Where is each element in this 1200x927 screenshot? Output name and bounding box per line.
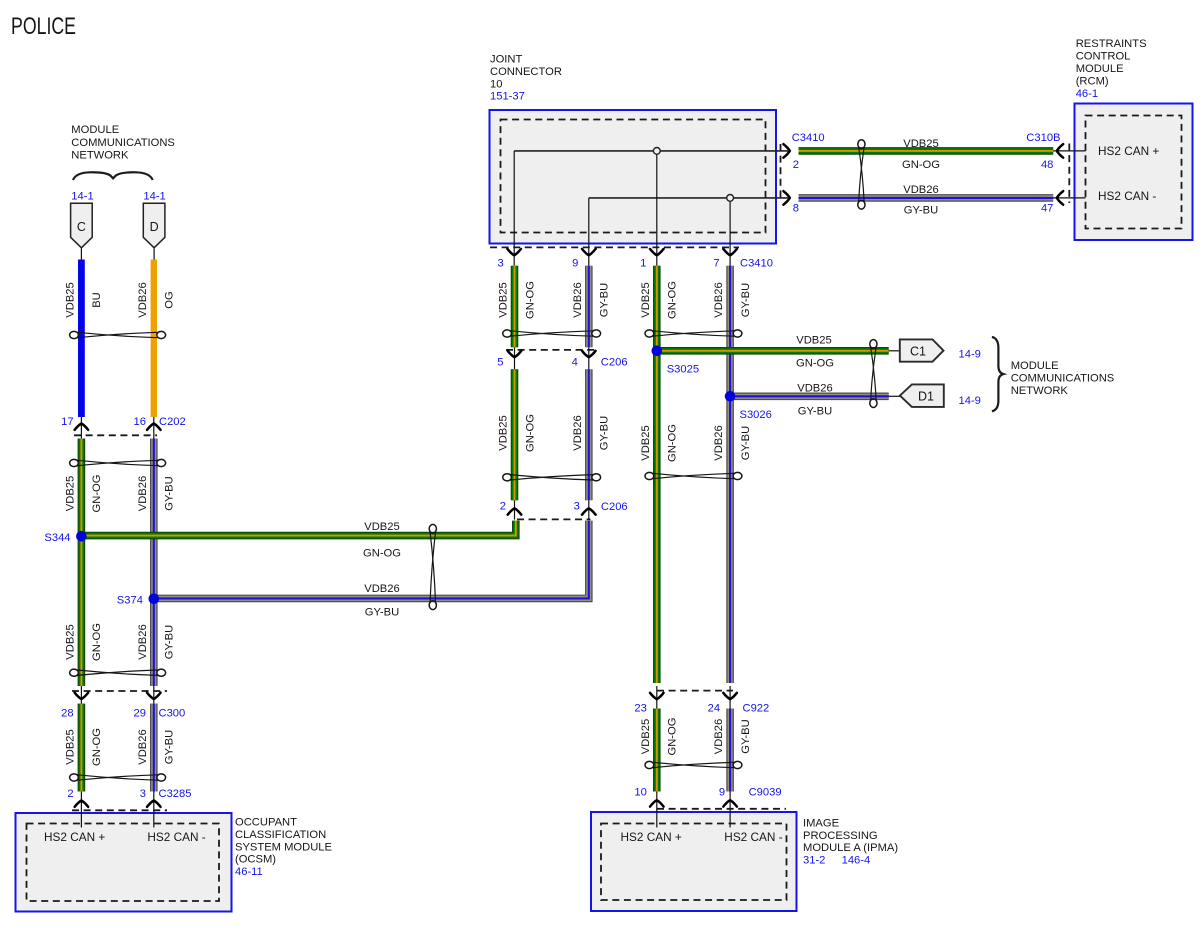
C3410 pin 8 arrow <box>783 191 789 205</box>
svg-text:C206: C206 <box>601 501 628 513</box>
svg-text:D1: D1 <box>918 389 934 403</box>
svg-text:VDB26: VDB26 <box>137 282 149 317</box>
twisted pair symbol on C1/D1 runs <box>870 340 877 408</box>
twisted pair symbol below C202 <box>70 459 166 466</box>
C3285 pin 3 arrow <box>147 801 161 807</box>
svg-text:1: 1 <box>640 258 646 270</box>
twisted pair symbol right pair upper <box>645 330 742 337</box>
svg-text:C3410: C3410 <box>792 132 825 144</box>
IPMA inner dashed box <box>601 824 787 901</box>
svg-text:9: 9 <box>572 258 578 270</box>
svg-text:2: 2 <box>67 788 73 800</box>
svg-text:VDB26: VDB26 <box>903 184 938 196</box>
splice S3026 <box>725 391 736 402</box>
svg-text:POLICE: POLICE <box>11 13 76 40</box>
wire VDB26 GY-BU from C300 pin 29 to C3285 pin 3 <box>150 704 158 792</box>
svg-text:GY-BU: GY-BU <box>599 416 611 450</box>
wire VDB26 GY-BU from C202 pin 16 to C300 pin 29 <box>150 439 158 687</box>
twisted pair symbol above C9039 <box>645 761 742 768</box>
svg-text:C9039: C9039 <box>749 787 782 799</box>
svg-text:VDB26: VDB26 <box>572 415 584 450</box>
svg-text:(OCSM): (OCSM) <box>235 854 276 866</box>
C206 pin 2 line <box>514 500 516 519</box>
brace right of C1 D1 <box>992 337 1003 411</box>
svg-text:HS2 CAN -: HS2 CAN - <box>1098 189 1156 203</box>
svg-text:GN-OG: GN-OG <box>363 547 401 559</box>
C9039 pin 10 arrow <box>650 800 664 806</box>
svg-text:5: 5 <box>497 357 503 369</box>
twisted pair symbol on S344/S374 runs <box>429 524 436 609</box>
svg-text:VDB25: VDB25 <box>640 425 652 460</box>
svg-text:VDB26: VDB26 <box>137 476 149 511</box>
svg-text:C3410: C3410 <box>740 258 773 270</box>
svg-text:GN-OG: GN-OG <box>667 424 679 462</box>
connector D pigtail line <box>153 248 155 260</box>
joint connector pin 3 drop line <box>513 151 515 266</box>
joint connector pin 7 drop line <box>729 201 731 266</box>
connector C206 lower dashed boundary <box>517 518 591 520</box>
svg-text:C3285: C3285 <box>159 788 192 800</box>
svg-text:NETWORK: NETWORK <box>1011 385 1069 397</box>
C206 pin 2 arrow <box>508 508 522 514</box>
joint connector pin 1 arrow <box>650 249 664 255</box>
svg-text:3: 3 <box>574 501 580 513</box>
twisted pair symbol above C3285 <box>70 774 166 781</box>
svg-text:GY-BU: GY-BU <box>164 625 176 659</box>
svg-text:14-9: 14-9 <box>959 395 981 407</box>
svg-text:9: 9 <box>719 787 725 799</box>
svg-text:146-4: 146-4 <box>842 855 871 867</box>
svg-text:GY-BU: GY-BU <box>599 283 611 317</box>
RCM inner dashed box <box>1086 116 1182 229</box>
connector C300 dashed boundary <box>72 690 167 692</box>
connector C pentagon <box>71 203 93 248</box>
svg-text:48: 48 <box>1041 159 1053 171</box>
svg-text:VDB25: VDB25 <box>64 282 76 317</box>
connector C3410 dashed boundary right of joint connector <box>780 144 782 198</box>
svg-text:VDB25: VDB25 <box>364 521 399 533</box>
C1 flag lead line <box>889 350 901 352</box>
svg-text:PROCESSING: PROCESSING <box>803 830 878 842</box>
svg-text:GY-BU: GY-BU <box>740 426 752 460</box>
svg-text:47: 47 <box>1041 202 1053 214</box>
connector C3285 dashed boundary <box>72 809 167 811</box>
svg-text:S344: S344 <box>44 532 70 544</box>
svg-text:GN-OG: GN-OG <box>524 414 536 452</box>
svg-text:SYSTEM MODULE: SYSTEM MODULE <box>235 841 332 853</box>
connector C206 upper dashed boundary <box>506 349 598 351</box>
svg-text:S3026: S3026 <box>740 409 772 421</box>
wire VDB26 GY-BU joint connector pin 9 to C206 pin 4 <box>585 266 593 348</box>
svg-text:14-1: 14-1 <box>143 191 165 203</box>
svg-text:10: 10 <box>634 787 646 799</box>
svg-text:HS2 CAN -: HS2 CAN - <box>147 830 205 844</box>
svg-text:MODULE: MODULE <box>71 124 119 136</box>
svg-text:CONTROL: CONTROL <box>1076 51 1131 63</box>
twisted pair symbol middle pair upper <box>503 330 601 337</box>
svg-text:VDB26: VDB26 <box>364 583 399 595</box>
svg-text:C206: C206 <box>601 357 628 369</box>
svg-text:GY-BU: GY-BU <box>164 730 176 764</box>
svg-text:VDB26: VDB26 <box>137 624 149 659</box>
svg-text:VDB25: VDB25 <box>796 335 831 347</box>
wire VDB26 GY-BU from splice S3026 to connector D1 <box>730 392 889 400</box>
wire VDB26 GY-BU from C206 pin 4 side down to pin 3 area <box>585 369 593 500</box>
C300 pin 28 arrow <box>75 693 89 699</box>
OCSM module box <box>16 813 232 912</box>
C3285 pin 2 line into OCSM <box>80 792 82 828</box>
wire VDB25 GN-OG from splice S344 to C206 pin 2 <box>81 521 515 536</box>
svg-text:(RCM): (RCM) <box>1076 75 1109 87</box>
svg-text:GN-OG: GN-OG <box>91 728 103 766</box>
twisted pair symbol BU/OG <box>70 331 166 338</box>
C9039 pin 9 line into IPMA <box>729 792 731 828</box>
svg-text:VDB25: VDB25 <box>498 282 510 317</box>
C202 pin 16 line <box>153 417 155 439</box>
svg-text:OG: OG <box>164 291 176 308</box>
svg-text:HS2 CAN -: HS2 CAN - <box>724 830 782 844</box>
connector C1 flag <box>900 339 944 361</box>
svg-text:CLASSIFICATION: CLASSIFICATION <box>235 829 326 841</box>
RCM module box <box>1075 104 1193 241</box>
wire VDB26 GY-BU from splice S374 to C206 pin 3 <box>154 521 589 599</box>
svg-text:C300: C300 <box>159 708 186 720</box>
svg-text:VDB26: VDB26 <box>572 282 584 317</box>
C300 pin 29 arrow <box>147 693 161 699</box>
C310B pin 48 arrow <box>1057 144 1063 158</box>
C9039 pin 9 arrow <box>723 800 737 806</box>
C3410 pin 2 arrow <box>783 144 789 158</box>
svg-text:31-2: 31-2 <box>803 855 825 867</box>
wire VDB25 GN-OG from C922 pin 23 to C9039 pin 10 <box>653 709 661 792</box>
svg-text:GN-OG: GN-OG <box>524 281 536 319</box>
svg-text:OCCUPANT: OCCUPANT <box>235 817 297 829</box>
svg-text:VDB25: VDB25 <box>64 729 76 764</box>
connector C3410 dashed boundary below joint connector <box>490 246 739 248</box>
svg-text:GY-BU: GY-BU <box>740 283 752 317</box>
svg-text:14-9: 14-9 <box>959 349 981 361</box>
svg-text:VDB25: VDB25 <box>64 476 76 511</box>
IPMA module box <box>591 812 797 911</box>
svg-text:CONNECTOR: CONNECTOR <box>490 66 562 78</box>
svg-text:RESTRAINTS: RESTRAINTS <box>1076 38 1147 50</box>
svg-text:COMMUNICATIONS: COMMUNICATIONS <box>71 137 175 149</box>
svg-text:GN-OG: GN-OG <box>91 623 103 661</box>
wire VDB26 OG from connector D to C202 pin 16 <box>151 260 157 418</box>
joint connector box outline <box>490 110 777 244</box>
wire VDB25 GN-OG from C3410 pin 2 to RCM C310B pin 48 <box>799 147 1054 155</box>
twisted pair symbol above C300 <box>70 669 166 676</box>
connector C310B dashed boundary <box>1068 144 1070 204</box>
joint connector pin 9 arrow <box>582 249 596 255</box>
svg-text:GY-BU: GY-BU <box>740 719 752 753</box>
svg-text:28: 28 <box>61 708 73 720</box>
splice S3025 <box>652 346 663 357</box>
brace over connectors C and D <box>73 172 153 180</box>
svg-text:C310B: C310B <box>1026 132 1060 144</box>
svg-text:D: D <box>150 220 159 234</box>
svg-text:S3025: S3025 <box>667 364 699 376</box>
wire VDB26 GY-BU joint connector pin 7 to C922 pin 24 through splice S3026 <box>726 266 734 683</box>
svg-text:2: 2 <box>793 159 799 171</box>
svg-text:VDB26: VDB26 <box>713 719 725 754</box>
C922 pin 24 arrow <box>723 693 737 699</box>
C206 pin 4 line <box>588 347 590 369</box>
svg-text:VDB26: VDB26 <box>137 729 149 764</box>
svg-text:JOINT: JOINT <box>490 54 522 66</box>
wire VDB25 GN-OG from C300 pin 28 to C3285 pin 2 <box>78 704 86 792</box>
svg-text:3: 3 <box>497 258 503 270</box>
C206 pin 4 arrow <box>582 351 596 357</box>
C206 pin 5 arrow <box>508 351 522 357</box>
RCM pin 48 line <box>1053 150 1086 152</box>
svg-text:HS2 CAN +: HS2 CAN + <box>44 830 105 844</box>
svg-text:S374: S374 <box>117 594 143 606</box>
wire VDB25 GN-OG joint connector pin 1 to C922 pin 23 through splice S3025 <box>653 266 661 683</box>
C3285 pin 2 arrow <box>75 801 89 807</box>
wire VDB25 GN-OG from splice S3025 to connector C1 <box>657 347 889 355</box>
svg-text:GY-BU: GY-BU <box>365 607 399 619</box>
wire VDB26 GY-BU from C922 pin 24 to C9039 pin 9 <box>726 709 734 792</box>
wire VDB25 GN-OG from C202 pin 17 to C300 pin 28 <box>78 439 86 687</box>
wire VDB25 BU from connector C to C202 pin 17 <box>78 260 85 418</box>
svg-text:29: 29 <box>134 708 146 720</box>
D1 flag lead line <box>889 395 901 397</box>
svg-text:MODULE: MODULE <box>1011 360 1059 372</box>
svg-text:46-11: 46-11 <box>235 866 263 878</box>
wire VDB26 GY-BU from C3410 pin 8 to RCM C310B pin 47 <box>799 194 1054 202</box>
C206 pin 3 line <box>588 500 590 519</box>
twisted pair symbol on RCM runs <box>858 140 865 209</box>
svg-text:8: 8 <box>793 202 799 214</box>
svg-text:14-1: 14-1 <box>71 191 93 203</box>
svg-text:VDB25: VDB25 <box>640 282 652 317</box>
svg-text:C202: C202 <box>159 416 186 428</box>
svg-text:VDB25: VDB25 <box>640 719 652 754</box>
wire VDB25 GN-OG from C206 pin 5 side down to pin 2 area <box>511 369 519 500</box>
connector C922 dashed boundary <box>657 690 733 692</box>
joint connector pin 7 arrow <box>723 249 737 255</box>
connector C202 dashed boundary <box>74 434 157 436</box>
wire VDB25 GN-OG joint connector pin 3 to C206 pin 5 <box>511 266 519 348</box>
svg-text:C: C <box>77 220 86 234</box>
svg-text:BU: BU <box>91 292 103 308</box>
svg-text:HS2 CAN +: HS2 CAN + <box>621 830 682 844</box>
svg-text:GY-BU: GY-BU <box>904 205 938 217</box>
svg-text:GN-OG: GN-OG <box>667 718 679 756</box>
connector C pigtail line <box>80 248 82 260</box>
svg-text:MODULE: MODULE <box>1076 63 1124 75</box>
svg-text:C1: C1 <box>910 345 926 359</box>
C922 pin 23 arrow <box>650 693 664 699</box>
svg-text:GN-OG: GN-OG <box>796 357 834 369</box>
svg-text:16: 16 <box>134 416 146 428</box>
OCSM inner dashed box <box>27 824 220 902</box>
svg-text:VDB25: VDB25 <box>498 415 510 450</box>
svg-text:NETWORK: NETWORK <box>71 150 129 162</box>
svg-text:23: 23 <box>634 703 646 715</box>
twisted pair symbol right pair mid <box>645 472 742 479</box>
connector D pentagon <box>143 203 165 248</box>
svg-text:24: 24 <box>708 703 720 715</box>
joint connector pin 9 drop line <box>588 198 590 266</box>
joint connector bus bar VDB26 horizontal <box>589 197 788 199</box>
C202 pin 17 line <box>80 417 82 439</box>
C202 pin 17 arrow <box>75 424 89 430</box>
splice S374 <box>149 594 160 605</box>
svg-text:7: 7 <box>713 258 719 270</box>
svg-text:VDB26: VDB26 <box>713 425 725 460</box>
joint connector pin 3 arrow <box>507 249 521 255</box>
C206 pin 5 line <box>514 347 516 369</box>
C310B pin 47 arrow <box>1057 191 1063 205</box>
twisted pair symbol middle pair lower <box>503 474 601 481</box>
svg-text:VDB25: VDB25 <box>903 138 938 150</box>
svg-text:IMAGE: IMAGE <box>803 818 839 830</box>
svg-text:GN-OG: GN-OG <box>902 159 940 171</box>
svg-text:GY-BU: GY-BU <box>164 476 176 510</box>
svg-text:VDB26: VDB26 <box>797 382 832 394</box>
svg-text:4: 4 <box>572 357 578 369</box>
connector C9039 dashed boundary <box>657 808 786 810</box>
svg-text:COMMUNICATIONS: COMMUNICATIONS <box>1011 373 1115 385</box>
C300 pin 29 line <box>153 686 155 704</box>
C922 pin 23 line <box>656 686 658 709</box>
connector D1 flag <box>900 384 944 407</box>
svg-text:10: 10 <box>490 78 502 90</box>
RCM pin 47 line <box>1053 197 1086 199</box>
svg-text:VDB26: VDB26 <box>713 282 725 317</box>
C206 pin 3 arrow <box>582 508 596 514</box>
svg-text:17: 17 <box>61 416 73 428</box>
svg-text:151-37: 151-37 <box>490 91 525 103</box>
bus junction node at pin 7 tap <box>727 195 734 202</box>
joint connector bus bar VDB25 horizontal <box>514 150 788 152</box>
svg-text:GN-OG: GN-OG <box>91 475 103 513</box>
svg-text:GN-OG: GN-OG <box>667 281 679 319</box>
joint connector inner dashed box <box>501 120 766 233</box>
joint connector pin 1 drop line <box>656 154 658 266</box>
C922 pin 24 line <box>729 686 731 709</box>
C3285 pin 3 line into OCSM <box>153 792 155 828</box>
svg-text:VDB25: VDB25 <box>64 624 76 659</box>
svg-text:HS2 CAN +: HS2 CAN + <box>1098 144 1159 158</box>
svg-text:46-1: 46-1 <box>1076 88 1098 100</box>
C300 pin 28 line <box>80 686 82 704</box>
splice S344 <box>76 531 87 542</box>
svg-text:2: 2 <box>500 501 506 513</box>
svg-text:3: 3 <box>140 788 146 800</box>
svg-text:GY-BU: GY-BU <box>798 406 832 418</box>
svg-text:MODULE A (IPMA): MODULE A (IPMA) <box>803 842 898 854</box>
svg-text:C922: C922 <box>743 703 770 715</box>
C202 pin 16 arrow <box>147 424 161 430</box>
C9039 pin 10 line into IPMA <box>656 792 658 828</box>
bus junction node at pin 1 tap <box>653 148 660 155</box>
